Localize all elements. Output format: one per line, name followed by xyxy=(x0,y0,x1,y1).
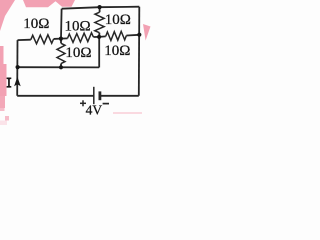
svg-text:4V: 4V xyxy=(86,103,103,118)
svg-text:10Ω: 10Ω xyxy=(104,43,130,59)
svg-text:10Ω: 10Ω xyxy=(65,45,91,61)
svg-text:10Ω: 10Ω xyxy=(105,12,131,28)
svg-text:10Ω: 10Ω xyxy=(65,19,91,35)
svg-text:10Ω: 10Ω xyxy=(23,16,49,32)
